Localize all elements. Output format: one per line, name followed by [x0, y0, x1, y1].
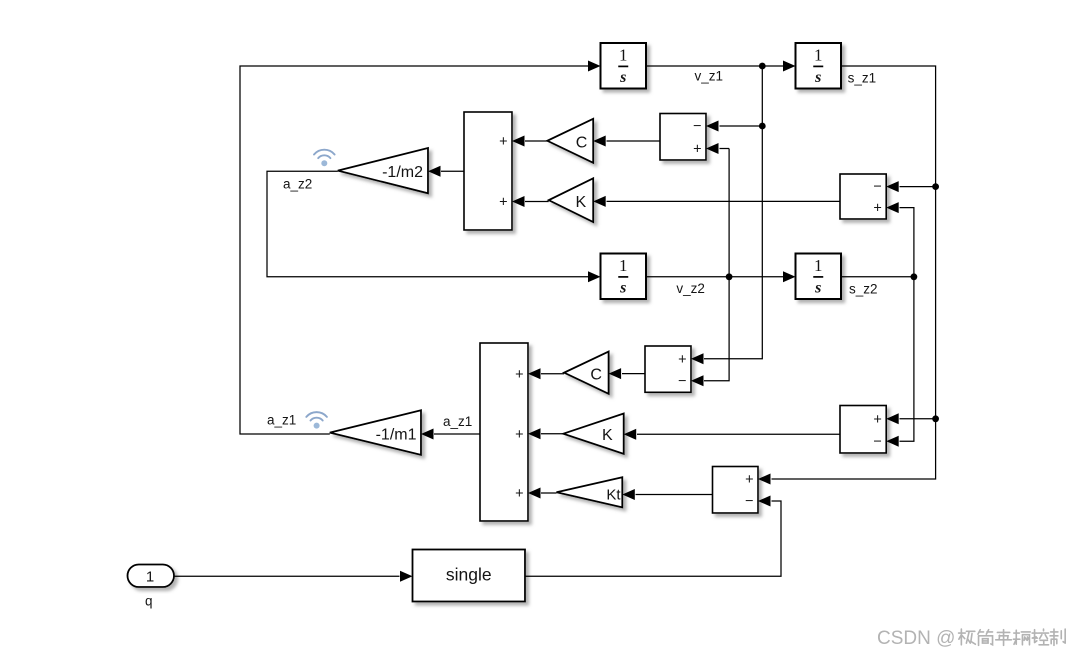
wire a_z1 from adder A2 to gain -1/m1	[434, 433, 480, 435]
wire v_z2 branch to sum S1 plus and sum S3 minus	[720, 148, 730, 150]
svg-text:−: −	[693, 119, 701, 135]
sum S4 (q - s_z1)	[713, 467, 759, 514]
integrator U2 (position s_z1)	[796, 43, 842, 89]
svg-text:v_z2: v_z2	[676, 281, 705, 296]
svg-text:+: +	[499, 195, 507, 211]
wire a_z1 feedback from gain -1/m1 to integrator U1	[240, 66, 589, 434]
gain K (upper spring)	[549, 178, 594, 222]
integrator U3 (velocity v_z2)	[601, 254, 647, 300]
gain C (lower damper)	[564, 352, 609, 394]
svg-text:+: +	[873, 412, 881, 428]
wire a_z2 from gain -1/m2 to integrator U3	[267, 171, 589, 276]
wire s_z2 from U4 to junction	[841, 276, 914, 278]
svg-text:-1/m1: -1/m1	[376, 427, 417, 444]
sum S5 (s_z1 - s_z2)	[840, 406, 886, 454]
svg-text:Kt: Kt	[606, 487, 621, 504]
wire v_z1 from U1 to U2	[646, 65, 784, 67]
svg-text:v_z1: v_z1	[695, 69, 724, 84]
wire v_z1 into sum S1 minus	[720, 125, 763, 127]
svg-text:s: s	[619, 69, 626, 86]
subsystem single	[413, 550, 526, 602]
wire gain C lower to adder A2	[541, 373, 564, 375]
svg-text:1: 1	[619, 256, 628, 275]
svg-text:1: 1	[619, 46, 628, 65]
wire q from inport to subsystem single	[174, 575, 400, 577]
svg-text:−: −	[873, 434, 881, 450]
svg-text:CSDN @: CSDN @	[877, 628, 955, 649]
wire s_z2 down into sum S5 minus	[900, 277, 914, 441]
gain C (upper damper)	[547, 119, 593, 163]
svg-text:single: single	[446, 565, 492, 585]
wire sum S1 output to gain C upper	[607, 140, 661, 142]
junction v_z2 tap	[726, 273, 733, 280]
junction s_z1 to S5	[932, 415, 939, 422]
wire adder A1 output to gain -1/m2	[441, 170, 464, 172]
adder A2 (three inputs)	[480, 343, 528, 521]
svg-text:+: +	[515, 367, 523, 383]
svg-text:a_z1: a_z1	[443, 414, 472, 429]
svg-text:−: −	[678, 373, 686, 389]
svg-text:−: −	[873, 179, 881, 195]
svg-text:s_z2: s_z2	[849, 282, 878, 297]
wire gain Kt to adder A2	[541, 492, 557, 494]
junction s_z2	[911, 273, 918, 280]
wire s_z1 into sum S5 plus	[900, 418, 936, 420]
wire s_z1 into sum S2 minus	[900, 186, 936, 188]
gain -1/m2	[338, 148, 428, 193]
integrator U1 (velocity v_z1)	[601, 43, 647, 89]
wire sum S5 output to gain K lower	[637, 433, 840, 435]
wire single output up to sum S4 minus	[525, 501, 781, 576]
svg-text:s: s	[814, 280, 821, 297]
svg-text:s: s	[619, 280, 626, 297]
wire gain K upper to adder A1	[525, 201, 549, 203]
svg-text:a_z2: a_z2	[283, 177, 312, 192]
svg-text:1: 1	[814, 46, 823, 65]
sum S1 (v_z2 - v_z1)	[660, 114, 706, 161]
svg-text:s: s	[814, 69, 821, 86]
logging icon on a_z1	[314, 423, 320, 429]
logging icon on a_z2	[321, 160, 327, 166]
svg-text:-1/m2: -1/m2	[382, 164, 423, 181]
wire sum S4 output to gain Kt	[636, 494, 713, 496]
svg-text:+: +	[515, 486, 523, 502]
svg-text:1: 1	[146, 569, 154, 586]
sum S3 (v_z1 - v_z2)	[645, 346, 691, 392]
wire s_z1 from U2 down right side to sum S4 plus	[772, 66, 936, 479]
svg-text:+: +	[873, 201, 881, 217]
svg-text:K: K	[575, 194, 586, 211]
integrator U4 (position s_z2)	[796, 254, 842, 300]
svg-text:a_z1: a_z1	[267, 413, 296, 428]
svg-text:C: C	[590, 366, 602, 383]
junction v_z1 to S1	[759, 123, 766, 130]
inport 1 (q)	[128, 565, 175, 588]
svg-text:1: 1	[814, 256, 823, 275]
svg-text:s_z1: s_z1	[848, 71, 877, 86]
wire v_z1 branch down to sum S1 minus and sum S3 plus	[704, 66, 762, 359]
svg-text:+: +	[745, 472, 753, 488]
wire s_z2 up into sum S2 plus	[900, 208, 914, 277]
svg-text:−: −	[745, 494, 753, 510]
svg-text:q: q	[145, 594, 153, 609]
wire sum S3 output to gain C lower	[622, 373, 645, 375]
gain -1/m1	[330, 410, 421, 455]
gain Kt (tire stiffness)	[557, 477, 623, 507]
wire gain K lower to adder A2	[541, 433, 563, 435]
svg-text:+: +	[678, 352, 686, 368]
wire gain C upper to adder A1	[525, 140, 547, 142]
junction s_z1 to S2	[932, 183, 939, 190]
sum S2 (s_z2 - s_z1)	[840, 174, 886, 219]
wire v_z2 from U3 to U4	[646, 276, 784, 278]
junction v_z1 tap	[759, 63, 766, 70]
svg-text:K: K	[602, 427, 613, 444]
gain K (lower spring)	[563, 414, 623, 454]
svg-text:+: +	[693, 142, 701, 158]
wire sum S2 output to gain K upper	[607, 200, 841, 202]
svg-text:C: C	[576, 134, 588, 151]
adder A1 (two inputs)	[464, 112, 512, 230]
svg-text:+: +	[515, 427, 523, 443]
svg-text:+: +	[499, 134, 507, 150]
